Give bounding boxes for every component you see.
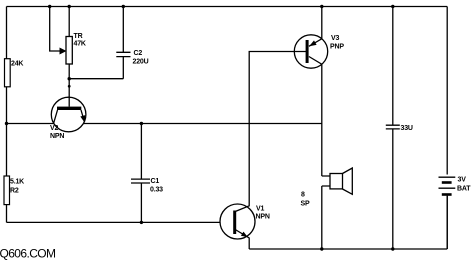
svg-text:V1: V1 <box>256 206 264 213</box>
svg-text:R2: R2 <box>10 188 19 195</box>
svg-text:NPN: NPN <box>256 214 270 221</box>
svg-text:47K: 47K <box>74 41 86 48</box>
svg-text:33U: 33U <box>401 125 413 132</box>
svg-text:TR: TR <box>74 33 83 40</box>
svg-text:PNP: PNP <box>330 44 344 51</box>
svg-text:SP: SP <box>301 201 310 208</box>
svg-text:V2: V2 <box>50 125 58 132</box>
svg-text:Q606.COM: Q606.COM <box>0 247 56 261</box>
svg-text:0.33: 0.33 <box>150 187 163 194</box>
svg-text:220U: 220U <box>133 59 149 66</box>
svg-text:C1: C1 <box>151 178 160 185</box>
svg-text:5.1K: 5.1K <box>10 179 24 186</box>
svg-text:BAT: BAT <box>457 186 471 193</box>
svg-text:8: 8 <box>301 192 305 199</box>
svg-text:3V: 3V <box>458 177 467 184</box>
svg-text:V3: V3 <box>331 35 339 42</box>
svg-text:24K: 24K <box>11 61 23 68</box>
svg-text:C2: C2 <box>134 50 143 57</box>
svg-text:NPN: NPN <box>50 133 64 140</box>
